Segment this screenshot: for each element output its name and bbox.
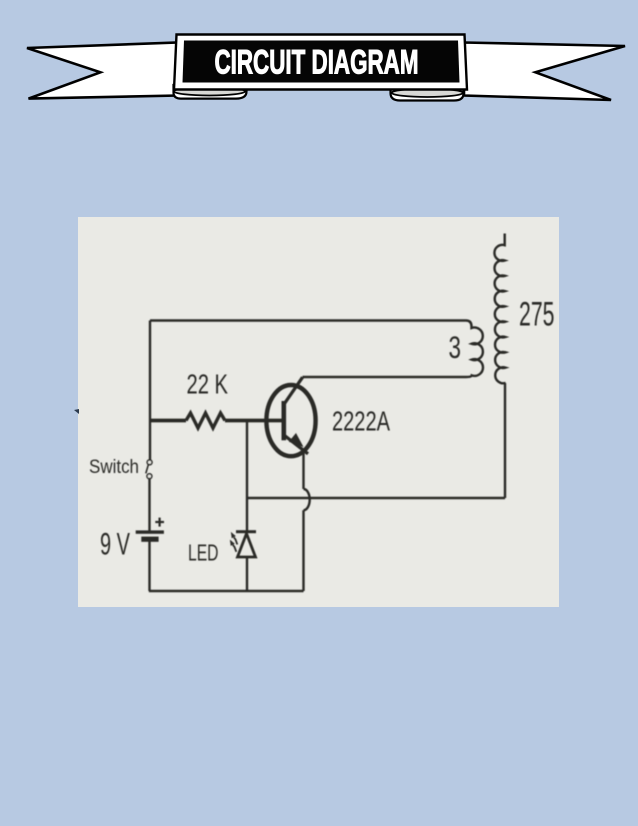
- wire base junction down to LED: [246, 421, 248, 532]
- wire LED to bottom rail: [246, 558, 248, 592]
- wire emitter vertical lower: [302, 510, 304, 591]
- wire top rail: [150, 319, 466, 321]
- wire resistor to base (thick): [225, 419, 283, 423]
- battery B1 9V: [136, 518, 164, 542]
- wire battery to bottom rail: [148, 541, 150, 591]
- transformer primary coil L1 (3 turns): [466, 321, 483, 378]
- edge artifact mark: [74, 409, 79, 414]
- resistor R1 22K zigzag: [186, 413, 225, 428]
- svg-text:9 V: 9 V: [100, 526, 130, 562]
- svg-text:LED: LED: [188, 540, 219, 566]
- svg-text:275: 275: [519, 296, 555, 334]
- labels: [89, 296, 555, 566]
- emitter lead: [285, 436, 309, 454]
- transformer secondary coil L2 (vertical, 9 loops): [494, 234, 505, 384]
- LED D1: [230, 530, 256, 557]
- wire base rail (thick): [150, 419, 186, 423]
- wire bottom rail: [149, 590, 304, 592]
- switch S1: [146, 460, 152, 479]
- emitter wire hop over mid wire: [304, 489, 310, 510]
- ribbon right curl: [391, 83, 464, 101]
- ribbon banner left tail: [27, 43, 178, 99]
- ribbon banner right tail: [464, 43, 625, 101]
- svg-text:Switch: Switch: [89, 457, 139, 478]
- svg-text:CIRCUIT DIAGRAM: CIRCUIT DIAGRAM: [215, 44, 419, 82]
- circuit image panel: [78, 217, 559, 607]
- base bar: [282, 401, 287, 440]
- LED emission arrow lower: [233, 545, 237, 552]
- banner centre plaque: [174, 35, 467, 90]
- wire left vertical upper (to switch): [149, 321, 151, 461]
- wire emitter vertical upper: [302, 454, 304, 490]
- LED emission arrow upper: [234, 537, 238, 544]
- svg-text:22 K: 22 K: [187, 369, 229, 400]
- wire mid horizontal (base node to secondary): [247, 497, 505, 499]
- emitter arrowhead: [289, 433, 304, 447]
- wire switch to battery: [148, 479, 150, 531]
- ribbon left curl: [174, 83, 247, 99]
- wire secondary bottom lead: [504, 383, 506, 498]
- transistor Q1 2222A body: [266, 377, 315, 456]
- svg-text:2222A: 2222A: [332, 406, 391, 437]
- wire collector horizontal to primary: [303, 376, 467, 378]
- banner black panel: [183, 41, 460, 83]
- svg-text:3: 3: [449, 329, 462, 365]
- collector lead: [285, 377, 303, 403]
